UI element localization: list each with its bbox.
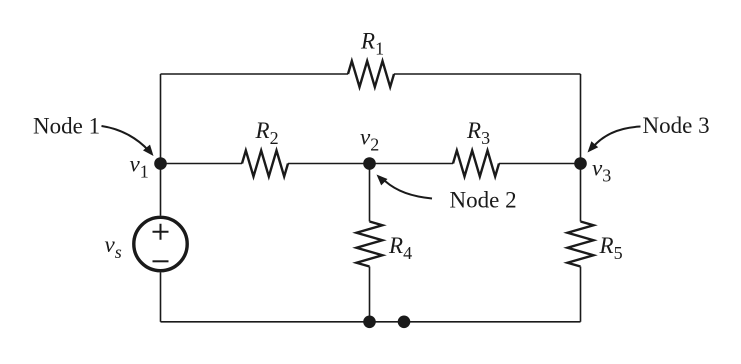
bottom junction dot left bbox=[363, 316, 376, 329]
svg-text:R5: R5 bbox=[599, 233, 623, 263]
svg-text:v3: v3 bbox=[592, 156, 611, 186]
resistor R3 bbox=[453, 151, 499, 177]
voltage source vs circle bbox=[134, 217, 187, 270]
wire bottom horizontal bbox=[161, 321, 581, 323]
Node 2 arrow bbox=[377, 175, 433, 199]
svg-text:v2: v2 bbox=[360, 125, 379, 155]
svg-text:R3: R3 bbox=[466, 118, 490, 148]
wire left rail lower bbox=[160, 272, 162, 322]
wire right rail lower bbox=[580, 267, 582, 322]
resistor R1 bbox=[348, 61, 394, 87]
Node 3 arrow bbox=[588, 127, 641, 153]
node dot v3 bbox=[574, 157, 587, 170]
svg-text:v1: v1 bbox=[130, 152, 149, 182]
wire R4 to bottom bbox=[369, 267, 371, 322]
node dot v2 bbox=[363, 157, 376, 170]
svg-text:R2: R2 bbox=[255, 118, 279, 148]
svg-text:R4: R4 bbox=[388, 233, 412, 263]
svg-text:vs: vs bbox=[105, 232, 122, 262]
svg-text:R1: R1 bbox=[360, 29, 384, 59]
wire v2 to R4 bbox=[369, 164, 371, 222]
bottom junction dot right bbox=[398, 316, 411, 329]
svg-text:Node 1: Node 1 bbox=[33, 114, 100, 139]
svg-text:Node 3: Node 3 bbox=[643, 113, 710, 138]
resistor R2 bbox=[242, 151, 288, 177]
svg-text:Node 2: Node 2 bbox=[450, 187, 517, 212]
resistor R5 bbox=[568, 222, 594, 267]
wire left rail upper bbox=[160, 74, 162, 216]
plus sign bbox=[153, 224, 169, 240]
wire right rail upper bbox=[580, 74, 582, 222]
wire middle v1 to R2 bbox=[161, 163, 243, 165]
wire top-right horizontal bbox=[394, 73, 581, 75]
wire R3 to v3 bbox=[499, 163, 581, 165]
minus sign bbox=[153, 260, 169, 262]
wire R2 to v2 bbox=[288, 163, 453, 165]
Node 1 arrow bbox=[102, 126, 154, 156]
resistor R4 bbox=[357, 222, 383, 267]
wire top-left horizontal bbox=[161, 73, 349, 75]
node dot v1 bbox=[154, 157, 167, 170]
